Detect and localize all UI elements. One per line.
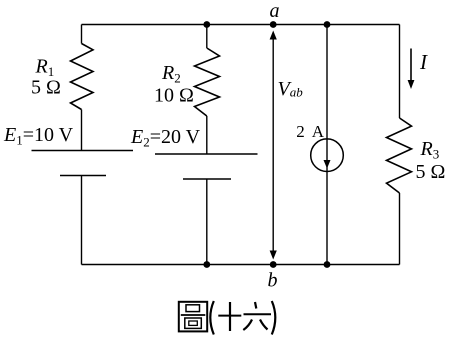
- value 10 ohm (R2): [154, 85, 194, 107]
- svg-text:R3: R3: [420, 138, 440, 162]
- wire bottom rail: [82, 264, 400, 266]
- Vab measurement arrow: [270, 31, 277, 260]
- svg-text:b: b: [268, 270, 278, 292]
- battery E2 negative plate: [183, 178, 231, 180]
- wire left branch top lead: [81, 25, 83, 44]
- wire E1 to bottom rail: [81, 176, 83, 265]
- wire E2 to bottom rail: [206, 179, 208, 265]
- caption close paren: [272, 301, 276, 335]
- label R3: [420, 138, 440, 162]
- svg-text:I: I: [419, 50, 428, 74]
- caption glyph tu (figure): [179, 302, 207, 332]
- node b: [270, 261, 277, 268]
- current source I1 circle: [311, 139, 344, 172]
- resistor R3: [387, 118, 412, 193]
- label I: [419, 50, 428, 74]
- current source arrow: [324, 160, 331, 169]
- battery E1 positive plate: [32, 150, 134, 152]
- svg-text:E2=20 V: E2=20 V: [130, 126, 201, 150]
- caption glyph shi (ten): [218, 302, 241, 331]
- wire R1 to E1: [81, 110, 83, 151]
- svg-text:5 Ω: 5 Ω: [31, 77, 61, 99]
- svg-text:E1=10 V: E1=10 V: [3, 124, 74, 148]
- svg-text:a: a: [270, 0, 280, 22]
- caption open paren: [210, 301, 214, 335]
- label Vab: [278, 78, 304, 100]
- svg-text:2: 2: [296, 122, 305, 141]
- wire top rail: [82, 24, 400, 26]
- resistor R1: [71, 44, 94, 110]
- label a: [270, 0, 280, 22]
- node junction bottom of branch 2: [203, 261, 210, 268]
- svg-text:R1: R1: [35, 56, 55, 80]
- node junction bottom of current source branch: [324, 261, 331, 268]
- battery E2 positive plate: [155, 153, 258, 155]
- current I arrow: [408, 49, 415, 90]
- svg-text:10 Ω: 10 Ω: [154, 85, 194, 107]
- label E2=20 V: [130, 126, 201, 150]
- value 5 ohm (R3): [416, 161, 446, 183]
- resistor R2: [195, 48, 220, 116]
- label R1: [35, 56, 55, 80]
- label 2 A: [296, 122, 325, 141]
- node a: [270, 21, 277, 28]
- svg-text:A: A: [312, 122, 325, 141]
- svg-text:R2: R2: [161, 62, 181, 86]
- battery E1 negative plate: [60, 175, 106, 177]
- svg-text:Vab: Vab: [278, 78, 304, 100]
- node junction top of current source branch: [324, 21, 331, 28]
- wire right branch top lead: [399, 25, 401, 119]
- caption glyph liu (six): [243, 302, 271, 330]
- value 5 ohm (R1): [31, 77, 61, 99]
- wire R2 to E2: [206, 116, 208, 154]
- wire second branch top lead: [206, 25, 208, 49]
- label b: [268, 270, 278, 292]
- node junction top of branch 2: [203, 21, 210, 28]
- wire R3 to bottom rail: [399, 193, 401, 265]
- svg-text:5 Ω: 5 Ω: [416, 161, 446, 183]
- label E1=10 V: [3, 124, 74, 148]
- label R2: [161, 62, 181, 86]
- wire current source branch: [326, 25, 328, 265]
